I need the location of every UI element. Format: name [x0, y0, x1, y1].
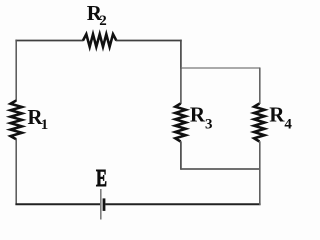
- svg-text:R: R: [190, 103, 206, 127]
- wire top-left segment: [15, 40, 83, 42]
- resistor R4: [254, 104, 264, 142]
- wire top-right segment: [116, 40, 182, 42]
- wire right vertical below R4: [259, 141, 261, 205]
- svg-text:R: R: [269, 103, 285, 127]
- wire bottom-left segment: [15, 203, 100, 205]
- svg-text:1: 1: [41, 117, 49, 133]
- battery E short plate: [103, 198, 106, 211]
- wire mid vertical above R3: [180, 68, 182, 105]
- svg-text:3: 3: [205, 117, 213, 133]
- battery E long plate: [100, 189, 102, 220]
- wire mid vertical below R3: [180, 141, 182, 170]
- resistor R2: [83, 34, 116, 47]
- svg-text:2: 2: [99, 13, 107, 29]
- wire inner box top: [181, 67, 260, 69]
- svg-text:4: 4: [284, 117, 292, 133]
- wire left upper segment: [15, 40, 17, 101]
- wire mid vertical upper (top wire to inner box top): [180, 40, 182, 69]
- wire bottom-right segment: [105, 203, 260, 205]
- wire left lower segment: [15, 139, 17, 205]
- resistor R3: [175, 104, 185, 142]
- svg-text:E: E: [96, 165, 107, 192]
- wire right vertical above R4: [259, 68, 261, 105]
- wire inner box bottom: [181, 168, 260, 170]
- resistor R1: [11, 101, 22, 140]
